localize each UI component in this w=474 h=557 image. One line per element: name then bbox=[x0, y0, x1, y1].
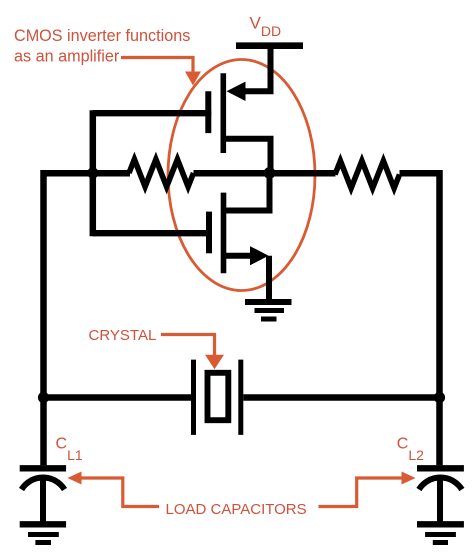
arrowhead pointing at CL2 bbox=[402, 472, 416, 485]
arrowhead of inverter callout bbox=[185, 72, 201, 86]
wire: left load-capacitor callout leader bbox=[82, 478, 160, 507]
ground under CL2: bar 1 bbox=[417, 521, 464, 527]
pmos Q1 gate bar bbox=[205, 91, 211, 133]
arrowhead of crystal callout bbox=[205, 355, 224, 369]
capacitor CL2 top plate bbox=[417, 465, 464, 471]
nmos Q2 source stub wire bbox=[226, 253, 252, 259]
ground under nmos: bar 1 bbox=[245, 299, 292, 305]
junction dot: bottom right node bbox=[434, 392, 445, 403]
resistor R2 (right series resistor) bbox=[335, 161, 400, 188]
ground under nmos: bar 3 bbox=[261, 317, 277, 322]
wire: CL1 to ground bbox=[40, 480, 46, 524]
capacitor CL1 top plate bbox=[20, 465, 66, 471]
wire: gate bus vertical bbox=[90, 110, 97, 236]
svg-text:as an amplifier: as an amplifier bbox=[14, 48, 120, 66]
capacitor CL1 curved plate bbox=[22, 478, 65, 490]
pmos Q1 source stub wire bbox=[243, 88, 274, 94]
svg-text:LOAD CAPACITORS: LOAD CAPACITORS bbox=[166, 501, 307, 518]
VDD power rail bar bbox=[236, 42, 303, 49]
wire: pmos gate lead bbox=[93, 110, 211, 116]
crystal X1 right plate bbox=[238, 360, 243, 435]
capacitor CL2 curved plate bbox=[419, 478, 462, 490]
svg-text:CL1: CL1 bbox=[56, 436, 83, 463]
wire: main line left segment bbox=[44, 170, 131, 177]
wire: bottom line left of crystal bbox=[44, 394, 192, 401]
svg-text:VDD: VDD bbox=[250, 14, 282, 40]
ground under CL2: bar 3 bbox=[433, 540, 448, 545]
wire: pmos drain stub down to output node bbox=[226, 139, 271, 176]
wire: left vertical rail bbox=[40, 170, 47, 465]
nmos Q2 channel bar bbox=[221, 193, 227, 274]
wire: bottom line right of crystal bbox=[243, 394, 439, 401]
ground under CL2: bar 2 bbox=[425, 532, 456, 537]
junction dot: gate bus / main line bbox=[87, 167, 98, 178]
ground under CL1: bar 3 bbox=[35, 540, 51, 545]
wire: callout leader to inverter ellipse bbox=[121, 58, 193, 74]
junction dot: inverter output node bbox=[264, 167, 276, 179]
arrowhead pointing at CL1 bbox=[68, 472, 82, 485]
nmos Q2 source arrow (points out of channel) bbox=[250, 246, 269, 265]
ground under nmos: bar 2 bbox=[255, 308, 285, 313]
svg-text:CMOS inverter functions: CMOS inverter functions bbox=[14, 27, 190, 45]
wire: main line right segment bbox=[400, 170, 440, 177]
wire: main line middle segment bbox=[194, 170, 336, 177]
junction dot: bottom left node bbox=[38, 392, 49, 403]
svg-text:CRYSTAL: CRYSTAL bbox=[89, 327, 157, 344]
crystal X1 body rectangle bbox=[208, 373, 229, 420]
wire: nmos source down to ground bbox=[266, 256, 272, 302]
wire: nmos drain stub up to output node bbox=[226, 170, 270, 211]
pmos Q1 source arrow (points into channel) bbox=[227, 82, 246, 101]
wire: right vertical rail bbox=[436, 170, 443, 465]
pmos Q1 channel bar bbox=[221, 73, 227, 153]
ellipse highlighting CMOS inverter bbox=[168, 60, 315, 291]
ground under CL1: bar 2 bbox=[28, 532, 59, 537]
wire: nmos gate lead bbox=[93, 230, 212, 236]
wire: right load-capacitor callout leader bbox=[319, 478, 402, 507]
svg-text:CL2: CL2 bbox=[397, 436, 424, 463]
nmos Q2 gate bar bbox=[206, 212, 212, 254]
ground under CL1: bar 1 bbox=[20, 521, 66, 527]
resistor R1 (left feedback resistor) bbox=[129, 159, 194, 186]
wire: crystal callout leader bbox=[161, 335, 215, 356]
wire: CL2 to ground bbox=[437, 480, 443, 524]
crystal X1 left plate bbox=[191, 360, 196, 435]
wire: VDD stem bbox=[268, 46, 274, 92]
